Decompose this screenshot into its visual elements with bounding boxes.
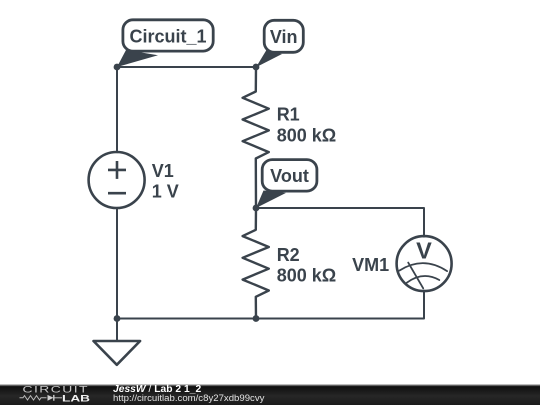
label tail Circuit_1 [117, 50, 158, 67]
svg-text:1 V: 1 V [152, 182, 179, 202]
node dot bottom-left [114, 315, 121, 322]
footer bar [0, 384, 540, 405]
wire V1 top lead [116, 67, 118, 152]
svg-text:LAB: LAB [62, 394, 91, 404]
wire voltmeter bottom to bottom net [117, 291, 424, 319]
svg-text:Vin: Vin [270, 27, 298, 47]
resistor R1 [243, 67, 269, 208]
node dot A (top-left) [114, 64, 121, 71]
voltmeter needle [408, 263, 423, 289]
wire ground stub [116, 319, 118, 342]
wire Vout horizontal to voltmeter [256, 208, 424, 237]
ground symbol [94, 341, 141, 365]
logo diode [48, 395, 54, 401]
node dot bottom-mid [253, 315, 260, 322]
svg-text:R1: R1 [277, 105, 300, 125]
svg-text:VM1: VM1 [352, 255, 389, 275]
svg-text:R2: R2 [277, 245, 300, 265]
node dot Vin [253, 64, 260, 71]
logo resistor zigzag [20, 396, 47, 400]
svg-text:Circuit_1: Circuit_1 [129, 27, 206, 47]
svg-text:http://circuitlab.com/c8y27xdb: http://circuitlab.com/c8y27xdb99cvy [113, 393, 265, 404]
label tail Vin [256, 50, 282, 67]
V1 minus sign [108, 192, 126, 195]
resistor R2 [243, 208, 269, 319]
voltmeter scale arc small [407, 276, 440, 283]
voltmeter VM1 circle [397, 236, 452, 291]
node label box Vout [262, 160, 317, 192]
voltage source V1 circle [89, 152, 145, 208]
voltmeter scale arc big [399, 263, 447, 271]
label tail Vout [256, 191, 286, 209]
node label box Circuit_1 [123, 20, 213, 51]
svg-text:V1: V1 [152, 161, 174, 181]
svg-text:800 kΩ: 800 kΩ [277, 265, 336, 285]
wire V1 bottom lead to bottom net [116, 208, 118, 319]
V1 plus sign [108, 161, 126, 193]
node label box Vin [264, 20, 303, 52]
svg-text:800 kΩ: 800 kΩ [277, 126, 336, 146]
svg-text:V: V [416, 237, 432, 263]
svg-text:Vout: Vout [270, 166, 309, 186]
wire top horizontal Circuit_1/Vin net [117, 66, 256, 68]
node dot Vout [253, 205, 260, 212]
